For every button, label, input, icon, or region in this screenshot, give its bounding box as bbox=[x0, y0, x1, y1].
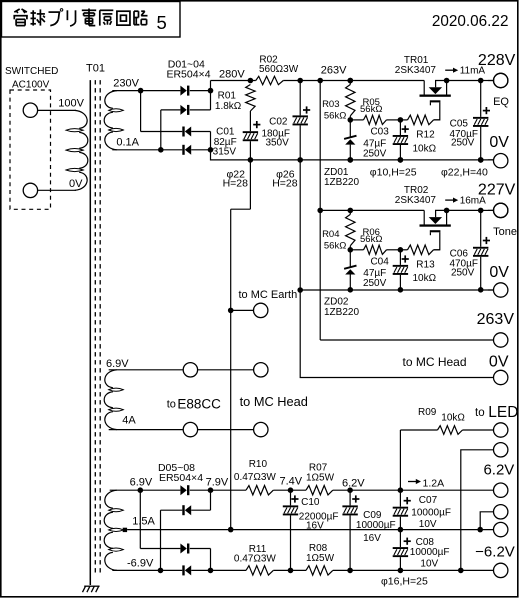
svg-text:560Ω3W: 560Ω3W bbox=[259, 64, 299, 75]
svg-text:R13: R13 bbox=[416, 259, 435, 270]
svg-text:φ16,H=25: φ16,H=25 bbox=[381, 575, 428, 587]
svg-text:to MC Head: to MC Head bbox=[240, 394, 308, 409]
svg-text:C07: C07 bbox=[419, 495, 438, 506]
svg-text:1.5A: 1.5A bbox=[132, 516, 155, 528]
svg-text:ER504×4: ER504×4 bbox=[166, 69, 210, 81]
svg-text:R01: R01 bbox=[218, 90, 237, 101]
svg-text:228V: 228V bbox=[478, 52, 516, 69]
svg-text:16V: 16V bbox=[306, 521, 324, 532]
svg-text:4A: 4A bbox=[122, 415, 136, 427]
svg-text:10kΩ: 10kΩ bbox=[413, 143, 437, 154]
svg-text:E88CC: E88CC bbox=[177, 396, 221, 411]
svg-text:10kΩ: 10kΩ bbox=[441, 413, 465, 424]
svg-text:10000µF: 10000µF bbox=[356, 520, 396, 531]
svg-text:6.2V: 6.2V bbox=[483, 461, 514, 478]
svg-text:0V: 0V bbox=[489, 134, 509, 151]
svg-text:ER504×4: ER504×4 bbox=[159, 472, 203, 484]
svg-text:56kΩ: 56kΩ bbox=[324, 240, 346, 251]
svg-text:C01: C01 bbox=[216, 126, 235, 137]
svg-text:56kΩ: 56kΩ bbox=[360, 104, 382, 115]
svg-text:AC100V: AC100V bbox=[12, 80, 50, 91]
svg-text:250V: 250V bbox=[363, 148, 387, 159]
svg-text:0.1A: 0.1A bbox=[116, 136, 139, 148]
svg-text:0.47Ω3W: 0.47Ω3W bbox=[234, 553, 277, 564]
svg-text:to MC Head: to MC Head bbox=[403, 355, 467, 369]
svg-text:R04: R04 bbox=[322, 229, 339, 240]
svg-text:280V: 280V bbox=[219, 68, 245, 80]
svg-text:227V: 227V bbox=[478, 182, 516, 199]
svg-text:0V: 0V bbox=[69, 178, 83, 190]
svg-text:R09: R09 bbox=[418, 407, 437, 418]
svg-text:C02: C02 bbox=[269, 117, 288, 128]
svg-text:250V: 250V bbox=[451, 268, 475, 279]
svg-text:T01: T01 bbox=[86, 63, 105, 75]
svg-text:to: to bbox=[475, 407, 485, 419]
svg-text:φ10,H=25: φ10,H=25 bbox=[370, 167, 417, 179]
svg-text:EQ: EQ bbox=[493, 96, 509, 108]
svg-text:250V: 250V bbox=[451, 138, 475, 149]
svg-text:230V: 230V bbox=[113, 77, 139, 89]
svg-text:263V: 263V bbox=[321, 65, 347, 77]
svg-text:1.8kΩ: 1.8kΩ bbox=[215, 101, 242, 112]
svg-text:2SK3407: 2SK3407 bbox=[395, 195, 437, 206]
svg-text:φ22,H=40: φ22,H=40 bbox=[441, 167, 488, 179]
svg-text:Tone: Tone bbox=[493, 226, 517, 238]
svg-text:1Ω5W: 1Ω5W bbox=[306, 473, 335, 484]
svg-text:H=28: H=28 bbox=[223, 178, 249, 190]
svg-text:1.2A: 1.2A bbox=[423, 477, 445, 489]
svg-text:6.2V: 6.2V bbox=[342, 477, 365, 489]
svg-text:to: to bbox=[167, 398, 176, 410]
svg-text:5: 5 bbox=[157, 12, 167, 33]
svg-text:-6.9V: -6.9V bbox=[127, 557, 154, 569]
svg-text:1Ω5W: 1Ω5W bbox=[306, 553, 335, 564]
svg-text:10000µF: 10000µF bbox=[410, 547, 450, 558]
svg-text:7.9V: 7.9V bbox=[206, 477, 229, 489]
svg-text:6.9V: 6.9V bbox=[130, 476, 153, 488]
svg-text:−6.2V: −6.2V bbox=[475, 543, 515, 560]
svg-text:2SK3407: 2SK3407 bbox=[395, 65, 437, 76]
svg-text:1ZB220: 1ZB220 bbox=[324, 307, 359, 318]
svg-text:263V: 263V bbox=[477, 311, 515, 328]
svg-text:16V: 16V bbox=[363, 533, 381, 544]
svg-text:to MC Earth: to MC Earth bbox=[239, 289, 298, 301]
svg-text:R10: R10 bbox=[249, 459, 268, 470]
svg-text:315V: 315V bbox=[213, 147, 237, 158]
svg-text:7.4V: 7.4V bbox=[280, 476, 303, 488]
svg-text:R03: R03 bbox=[322, 99, 339, 110]
svg-text:10kΩ: 10kΩ bbox=[413, 273, 437, 284]
svg-text:0V: 0V bbox=[489, 353, 509, 370]
svg-text:1ZB220: 1ZB220 bbox=[324, 177, 359, 188]
svg-text:SWITCHED: SWITCHED bbox=[5, 66, 58, 77]
svg-text:10V: 10V bbox=[420, 559, 438, 570]
svg-text:250V: 250V bbox=[363, 278, 387, 289]
svg-text:C04: C04 bbox=[370, 256, 389, 267]
svg-text:0V: 0V bbox=[489, 264, 509, 281]
svg-text:C10: C10 bbox=[301, 497, 320, 508]
svg-text:R12: R12 bbox=[416, 130, 435, 141]
svg-text:2020.06.22: 2020.06.22 bbox=[432, 13, 509, 30]
svg-text:H=28: H=28 bbox=[272, 178, 298, 190]
svg-text:0.47Ω3W: 0.47Ω3W bbox=[234, 472, 277, 483]
svg-text:6.9V: 6.9V bbox=[106, 358, 129, 370]
svg-text:LED: LED bbox=[488, 404, 518, 421]
svg-text:56kΩ: 56kΩ bbox=[360, 234, 382, 245]
svg-text:C03: C03 bbox=[370, 126, 389, 137]
svg-text:350V: 350V bbox=[265, 138, 289, 149]
svg-text:10V: 10V bbox=[419, 519, 437, 530]
svg-text:10000µF: 10000µF bbox=[411, 508, 451, 519]
svg-text:56kΩ: 56kΩ bbox=[324, 110, 346, 121]
svg-text:100V: 100V bbox=[58, 98, 84, 110]
